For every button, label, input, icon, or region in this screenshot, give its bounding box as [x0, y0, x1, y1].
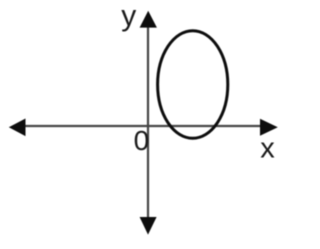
- svg-text:0: 0: [134, 125, 150, 156]
- y-axis wire: [147, 24, 149, 219]
- left arrowhead: [9, 119, 26, 137]
- svg-text:y: y: [121, 0, 136, 32]
- ellipse: [158, 31, 228, 139]
- right arrowhead: [260, 119, 278, 136]
- svg-text:x: x: [260, 133, 275, 165]
- top arrowhead: [140, 11, 157, 28]
- x-axis wire: [20, 125, 262, 127]
- bottom arrowhead: [140, 217, 157, 235]
